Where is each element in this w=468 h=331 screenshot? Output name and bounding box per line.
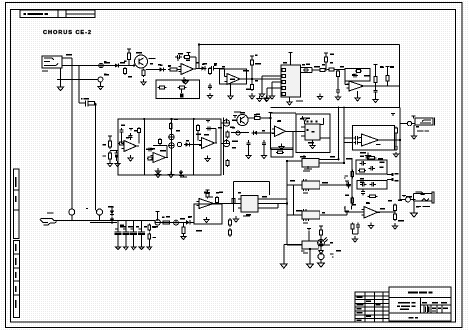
ground bbox=[368, 223, 373, 229]
wire U4A fb bbox=[122, 134, 140, 144]
resistor R22 bbox=[169, 122, 172, 130]
label R20 bbox=[103, 144, 106, 145]
revision history table bbox=[355, 292, 389, 322]
ground bbox=[259, 91, 264, 97]
ground bbox=[233, 216, 238, 222]
resistor R24 bbox=[226, 131, 229, 139]
transistor Q1 bbox=[135, 55, 148, 68]
node BBD in junction bbox=[251, 67, 253, 83]
label Q1 2SC732 bbox=[149, 58, 156, 59]
label MN3101 below bbox=[303, 170, 310, 171]
input jack J1 bbox=[42, 56, 62, 68]
op-amp U3A bbox=[347, 81, 367, 91]
power rail tap bbox=[324, 53, 328, 55]
feedback resistor box U5A bbox=[271, 148, 293, 157]
wire jack out bbox=[58, 220, 117, 222]
potentiometer DEPTH bbox=[223, 139, 229, 147]
label under SW3 bbox=[301, 250, 305, 251]
label T2 bbox=[344, 207, 345, 208]
ground bottom center bbox=[180, 175, 187, 177]
capacitor C13 bbox=[373, 89, 377, 95]
wire BBD out top bbox=[301, 67, 313, 69]
wire U4B fb bbox=[153, 146, 167, 158]
label Q3 bbox=[234, 111, 241, 112]
capacitor C24 bbox=[346, 182, 350, 189]
wire preamp out bbox=[196, 67, 200, 69]
op-amp U1B bbox=[225, 74, 243, 85]
resistor R10 bbox=[251, 83, 254, 91]
ground bbox=[205, 156, 210, 162]
wire input ring to buffer bbox=[62, 65, 134, 67]
grounds under cap bank bbox=[115, 247, 144, 250]
resistor R37 bbox=[351, 197, 354, 205]
capacitor C21 bbox=[354, 140, 360, 144]
wire R2 to Q1 bbox=[128, 62, 130, 66]
resistor R9 bbox=[251, 58, 254, 67]
resistor R42 bbox=[148, 224, 151, 232]
resistor R31b bbox=[366, 156, 377, 159]
capacitor C27 bbox=[361, 190, 365, 196]
wire sleeve bus bbox=[57, 79, 98, 81]
ground bottom 1 bbox=[280, 264, 287, 268]
diode D2 bbox=[157, 67, 166, 71]
power rail tap bbox=[233, 116, 237, 119]
title block document number bbox=[408, 292, 433, 294]
terminal dry out bbox=[387, 178, 399, 182]
resistor R2 bbox=[128, 51, 131, 62]
wire mid bus bbox=[271, 107, 401, 109]
power rail tap bbox=[269, 113, 273, 116]
ground bbox=[264, 96, 269, 102]
diode D7 bbox=[110, 209, 114, 217]
resistor R26 bbox=[197, 124, 200, 132]
op-amp U3B bbox=[359, 134, 381, 146]
wire mod input bbox=[231, 132, 249, 134]
node A bbox=[99, 63, 103, 67]
ground bbox=[128, 155, 133, 161]
op-amp U8 bbox=[362, 207, 381, 219]
wire R28 to box bbox=[248, 117, 271, 119]
resistor R5 bbox=[183, 56, 191, 59]
capacitor C23 bbox=[369, 166, 376, 170]
ground bbox=[279, 144, 284, 150]
potentiometer RATE bbox=[223, 118, 229, 126]
wire ring drop bbox=[78, 66, 80, 104]
label U10 bbox=[243, 215, 250, 216]
ground bbox=[155, 168, 160, 174]
node PWR bbox=[406, 197, 411, 202]
capacitor C19 bbox=[262, 140, 266, 148]
LED D10 bbox=[318, 237, 328, 246]
node MOD bbox=[236, 131, 240, 135]
wire SW outputs bbox=[318, 185, 347, 245]
wire right drop bbox=[339, 107, 345, 164]
wire to U9 box bbox=[192, 221, 194, 223]
ground bottom 3 bbox=[318, 260, 325, 268]
capacitor C17 bias bbox=[115, 151, 119, 162]
IC SW1 analog switch bbox=[302, 181, 320, 189]
left margin strip lower bbox=[13, 241, 19, 318]
wire right power rail bbox=[399, 108, 401, 198]
node FS1 bbox=[69, 209, 75, 215]
capacitor C6 electrolytic bbox=[180, 89, 183, 98]
wire to U1B bbox=[216, 67, 225, 69]
power rail tap bbox=[250, 56, 254, 58]
ground bbox=[115, 161, 120, 167]
wire to R16 bbox=[325, 64, 327, 70]
feedback box U3B bbox=[353, 126, 395, 151]
power rail tap bbox=[391, 114, 395, 117]
IC U2 BBD MN3207 bbox=[281, 65, 301, 97]
label R21 bbox=[103, 156, 106, 157]
resistor R39 bbox=[394, 213, 397, 222]
resistor R34 bbox=[351, 170, 354, 179]
power rail tap bbox=[108, 136, 112, 139]
ground R43 bbox=[147, 241, 152, 250]
box around U6 bbox=[296, 114, 330, 153]
op-amp U4A bbox=[122, 141, 140, 152]
box around U10 bbox=[233, 182, 269, 213]
node PM bbox=[174, 220, 179, 225]
filter network box 1 bbox=[356, 160, 387, 174]
ground bbox=[107, 161, 112, 167]
capacitor C5 bbox=[209, 66, 216, 70]
power rail tap bbox=[156, 212, 160, 215]
label SW1 bbox=[86, 208, 88, 209]
power rail tap bbox=[386, 67, 390, 69]
op-amp U5A bbox=[272, 126, 288, 137]
diode D11 zener bbox=[318, 247, 324, 260]
ground bbox=[155, 172, 160, 178]
capacitor C12 bbox=[352, 73, 358, 77]
capacitor bank C30-C33 bbox=[115, 221, 146, 247]
wire U8 wiring bbox=[345, 206, 395, 212]
op-amp U4B bbox=[151, 153, 169, 163]
label R43 bbox=[153, 237, 156, 238]
labels cap bank bbox=[115, 228, 142, 229]
misc value labels bbox=[66, 52, 419, 251]
power rail tap bbox=[110, 207, 114, 209]
diode D5 bbox=[252, 131, 260, 135]
ground bbox=[261, 153, 266, 159]
label ACA adaptor bbox=[419, 206, 430, 207]
feedback box U5A bbox=[271, 115, 294, 150]
feedback box U3A bbox=[345, 69, 370, 82]
label D11 bbox=[332, 256, 333, 257]
IC U6 clock VCO bbox=[301, 124, 330, 140]
ground bbox=[181, 77, 186, 83]
ground bbox=[207, 93, 212, 99]
resistor R17 bbox=[337, 70, 340, 79]
ground bbox=[98, 84, 103, 90]
diode D4 bbox=[179, 170, 183, 177]
IC SW3 analog switch bbox=[302, 241, 318, 249]
resistor R23b bbox=[147, 157, 153, 160]
wire bypass left rail bbox=[71, 58, 73, 209]
ground power jack bbox=[411, 201, 418, 217]
ground bottom 2 bbox=[307, 264, 314, 268]
label U9 bbox=[210, 196, 213, 197]
resistor R38 bbox=[394, 204, 397, 213]
resistor R33 marks bbox=[380, 162, 385, 168]
resistor R45 vert bbox=[182, 222, 185, 236]
wire feedback top bus bbox=[199, 45, 400, 108]
resistor R6a bbox=[158, 86, 167, 89]
IC SW2 analog switch bbox=[302, 211, 320, 219]
ground bbox=[246, 153, 251, 159]
wire bus to switch ICs bbox=[262, 170, 302, 245]
potentiometer RATE bbox=[169, 133, 175, 140]
title block bbox=[389, 287, 451, 321]
capacitor C22 bbox=[360, 161, 367, 165]
resistor R15 bbox=[325, 55, 328, 64]
wire psu rail bbox=[117, 220, 155, 222]
resistor R40 bbox=[351, 223, 354, 231]
label R42 bbox=[153, 227, 156, 228]
node LFO bbox=[177, 142, 181, 146]
wire D5 to U5A bbox=[259, 132, 275, 134]
label SW1 bbox=[303, 192, 308, 193]
power rail tap bbox=[307, 229, 311, 231]
power rail tap bbox=[374, 65, 378, 67]
label C2 bbox=[81, 98, 89, 99]
node OUT bbox=[407, 121, 411, 125]
ground U6 bbox=[312, 140, 314, 144]
label SW3 bbox=[303, 252, 308, 253]
node FS2 bbox=[97, 209, 103, 215]
capacitor C25 bbox=[360, 182, 367, 186]
resistor R23c bbox=[159, 138, 162, 145]
wire U3B out bbox=[379, 139, 401, 141]
resistor R32 bbox=[358, 169, 366, 172]
capacitor C2 electrolytic bbox=[79, 101, 96, 107]
ground bbox=[317, 94, 322, 100]
diode D0 bbox=[113, 63, 121, 67]
resistor R4 bbox=[168, 68, 179, 71]
wire grounds bottom drop bbox=[284, 245, 310, 265]
capacitor C16 bbox=[128, 133, 132, 140]
filter network box 2 bbox=[357, 181, 387, 190]
ground bbox=[335, 95, 340, 101]
resistor R22a bbox=[119, 142, 125, 145]
label output bottom bbox=[47, 212, 54, 213]
resistor R23a bbox=[138, 127, 141, 134]
wire U1B out to BBD bbox=[240, 78, 281, 80]
resistor R21 bbox=[109, 151, 112, 161]
polarity mark bbox=[412, 116, 416, 119]
ground bbox=[365, 153, 370, 159]
ground bbox=[257, 96, 262, 102]
capacitor C10 bbox=[303, 68, 309, 72]
label MN3101 bbox=[296, 160, 298, 161]
resistor R44a bbox=[161, 221, 173, 224]
resistor R16 bbox=[327, 68, 336, 71]
resistor R52 bbox=[320, 228, 323, 237]
wire pot stubs bbox=[221, 118, 224, 176]
ground bbox=[373, 97, 378, 102]
resistor R29f bbox=[276, 151, 284, 154]
ground bbox=[181, 236, 186, 240]
enable arrow U6 bbox=[303, 118, 308, 121]
ground bbox=[287, 99, 292, 105]
resistor R49 bbox=[232, 197, 235, 205]
ground bbox=[204, 217, 209, 223]
output jack J2 bbox=[415, 118, 435, 126]
resistor R47 bbox=[216, 196, 219, 204]
power rail tap bbox=[402, 196, 406, 198]
resistor R18 vert bbox=[374, 67, 377, 89]
resistor R31 bbox=[395, 127, 398, 135]
resistor R56 bbox=[229, 228, 232, 237]
resistor R25 bbox=[226, 159, 229, 167]
wire Q1 to D2 bbox=[146, 69, 157, 71]
capacitor C15a bbox=[119, 128, 123, 134]
label C24 bbox=[345, 175, 348, 176]
capacitor C26 bbox=[370, 182, 377, 186]
pin ticks SW2 bbox=[304, 209, 309, 221]
wire R19 to out bbox=[387, 83, 389, 86]
power rail tap bbox=[129, 129, 133, 131]
wire R17 down bbox=[337, 78, 339, 88]
resistor R19 bbox=[386, 74, 389, 84]
label T1 bbox=[344, 177, 345, 178]
power rail tap bbox=[127, 49, 131, 51]
misc reference labels bbox=[104, 54, 402, 226]
header revision table bbox=[20, 10, 95, 18]
terminal T1 bbox=[345, 181, 349, 185]
svg-text:CHORUS CE-2: CHORUS CE-2 bbox=[43, 30, 92, 36]
ground bbox=[264, 95, 269, 101]
power rail tap bbox=[206, 121, 210, 123]
label MN3207 bbox=[296, 100, 303, 101]
ground bbox=[392, 223, 397, 229]
resistor R20 bbox=[109, 139, 112, 149]
diode D3 bbox=[184, 142, 191, 146]
label LED bbox=[330, 253, 334, 254]
feedback box U1B bbox=[220, 69, 247, 84]
op-amp U1A bbox=[179, 64, 197, 75]
capacitor C17c bbox=[206, 126, 212, 130]
terminal wet out bbox=[387, 173, 399, 176]
potentiometer DEPTH bbox=[169, 141, 175, 148]
ground bbox=[352, 236, 357, 242]
power rail tap bbox=[319, 226, 323, 228]
wire U9 out bbox=[214, 203, 239, 205]
resistor R28 bbox=[253, 117, 263, 120]
IC U10 bbox=[238, 196, 262, 213]
wire block outline bbox=[118, 119, 221, 175]
ground bbox=[141, 79, 146, 85]
wires BBD clock pins bbox=[262, 76, 281, 93]
resistor R46 bbox=[206, 192, 209, 199]
ground bbox=[228, 94, 233, 100]
capacitor C4 bbox=[175, 55, 182, 59]
power rail tap bbox=[187, 53, 191, 56]
diode D8 bbox=[185, 220, 192, 224]
title block text bbox=[397, 302, 448, 319]
feedback network box U1A bbox=[156, 80, 199, 99]
label SW2 bbox=[303, 222, 308, 223]
wire input tip bbox=[62, 57, 72, 59]
wire to U4C bbox=[191, 144, 202, 146]
diode D1 bbox=[200, 66, 207, 70]
label U3B bbox=[376, 144, 381, 145]
left margin strip upper bbox=[13, 169, 19, 239]
ground bbox=[411, 133, 416, 139]
wire BBD out bottom bbox=[301, 72, 313, 74]
wire U5A out bbox=[293, 130, 304, 132]
op-amp U4C bbox=[199, 138, 217, 149]
DC power jack J3 bbox=[414, 192, 435, 203]
capacitor C11 bbox=[336, 88, 340, 94]
wire U3B input caps bbox=[344, 138, 353, 163]
node Q5 bbox=[155, 220, 160, 225]
capacitor C28 bbox=[356, 223, 360, 230]
output jack J4 plug bbox=[40, 219, 58, 226]
wire left rail filters bbox=[351, 158, 353, 206]
wire U4C fb bbox=[198, 129, 216, 144]
resistor R7 bbox=[209, 67, 212, 75]
capacitor C18 bbox=[246, 140, 250, 148]
header black code bar bbox=[24, 13, 49, 15]
resistor R14 bbox=[318, 69, 327, 72]
label OUTPUT bbox=[417, 130, 429, 131]
capacitor C20 bbox=[354, 136, 360, 140]
feedback box U9 bbox=[194, 204, 222, 224]
resistor R17b bbox=[355, 70, 362, 73]
ground bbox=[355, 96, 360, 102]
wire right bypass rail bbox=[95, 103, 97, 210]
wire node to diode bbox=[178, 221, 184, 223]
resistor R6b bbox=[178, 86, 187, 89]
capacitor C16b bbox=[147, 147, 153, 151]
resistor R3 bbox=[142, 69, 145, 78]
ground bbox=[393, 152, 398, 157]
capacitor C7 bbox=[208, 84, 212, 91]
resistor R35 bbox=[368, 195, 378, 198]
wire U7 connections bbox=[287, 155, 344, 170]
diode D7b bbox=[110, 217, 114, 224]
wire U3A out bbox=[364, 85, 400, 87]
ground bbox=[168, 172, 173, 178]
ground bbox=[310, 144, 315, 149]
resistor R1 bbox=[124, 67, 127, 75]
ground bbox=[269, 93, 274, 99]
wire U6 out right bbox=[271, 113, 324, 124]
wire R4 to op-amp bbox=[179, 69, 181, 71]
op-amp U9 bbox=[197, 199, 217, 209]
node B bbox=[98, 77, 103, 82]
power rail tap bbox=[206, 190, 210, 192]
ground bbox=[249, 93, 254, 99]
label INPUT bbox=[42, 70, 48, 71]
wire elbow to U3A bbox=[336, 70, 349, 85]
resistor R43 bbox=[148, 233, 151, 241]
ground input aux bbox=[57, 68, 63, 91]
IC U7 clock driver MN3101 bbox=[302, 159, 319, 168]
pin ticks SW1 bbox=[304, 179, 309, 191]
resistor R55 bbox=[229, 218, 232, 227]
transistor Q3 bbox=[237, 114, 248, 125]
terminal T2 bbox=[345, 211, 349, 215]
wire bias to block bbox=[110, 150, 118, 152]
power rail tap bbox=[289, 53, 293, 56]
pin marks U6 bbox=[307, 121, 318, 133]
ground bbox=[183, 79, 188, 84]
capacitor C22a bbox=[394, 145, 398, 151]
